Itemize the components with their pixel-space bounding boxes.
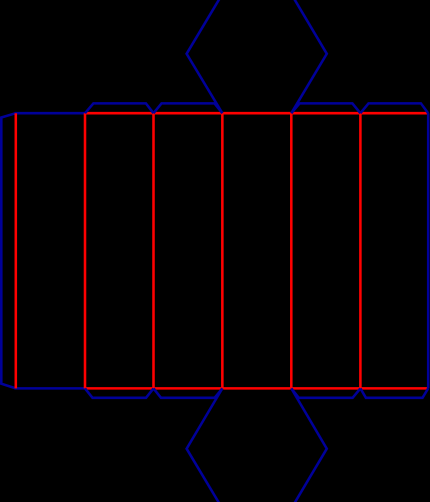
fold line panel 1/2 xyxy=(84,113,87,388)
top dust flap panel 6 xyxy=(360,103,428,113)
fold line panel 2/3 xyxy=(152,113,155,388)
glue flap left outline xyxy=(1,113,16,388)
panel 1 bottom cut line xyxy=(15,387,86,390)
fold line panel 5/6 xyxy=(359,113,362,388)
right edge cut line xyxy=(427,113,430,388)
top hexagonal lid xyxy=(187,0,327,113)
bottom fold line xyxy=(85,387,428,390)
top dust flap panel 3 xyxy=(154,103,223,113)
bottom dust flap panel 5 xyxy=(291,388,360,397)
top dust flap panel 2 xyxy=(85,103,154,113)
fold line panel 4/5 xyxy=(290,113,293,388)
fold line glue flap xyxy=(15,113,18,388)
fold line panel 3/4 xyxy=(221,113,224,388)
bottom dust flap panel 2 xyxy=(85,388,154,397)
bottom dust flap panel 3 xyxy=(154,388,223,397)
top fold line xyxy=(85,112,428,115)
bottom hexagonal lid xyxy=(187,388,327,502)
bottom dust flap panel 6 xyxy=(360,388,428,397)
panel 1 top cut line xyxy=(15,112,86,115)
top dust flap panel 5 xyxy=(291,103,360,113)
